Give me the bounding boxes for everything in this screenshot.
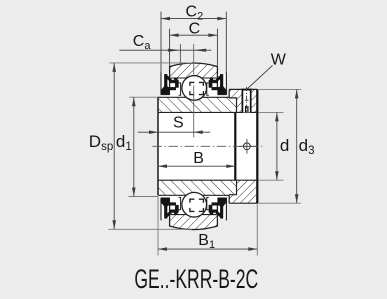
seal bottom-left: foot (161, 198, 170, 207)
dim d1 (133, 97, 135, 196)
dim C (170, 34, 218, 36)
dim d1 extension lines (129, 96, 158, 98)
seal bottom-left: run (170, 210, 179, 213)
seal top-right: run (209, 80, 218, 83)
outer ring bottom section (170, 215, 218, 230)
seal bottom-right: foot run (212, 203, 221, 206)
seal top-right: foot run (212, 87, 221, 90)
set screw channel (242, 89, 250, 112)
dim Dsp (113, 63, 115, 229)
shaft center line (152, 145, 262, 147)
seal bottom-left: outer bar (164, 205, 167, 218)
seal top-left: lip bracket (179, 83, 181, 95)
seal top-right: lip bracket (207, 83, 209, 95)
dim Ca tick (179, 44, 181, 66)
seal bottom-right: lip bracket (207, 197, 209, 209)
collar bottom face (229, 202, 257, 204)
seal top-right: nub (210, 78, 213, 80)
seal top-left: nub (174, 78, 177, 80)
set screw tick (245, 99, 249, 101)
seal zone white top (161, 74, 226, 98)
dim C2 extension lines (160, 12, 162, 73)
seal top-left: outer bar (164, 74, 167, 87)
collar bottom part (229, 180, 257, 203)
ball center plane line (193, 44, 195, 75)
dim C2 (161, 18, 226, 20)
seal top-right: diagonal lip (216, 76, 222, 82)
bore bottom line (158, 179, 257, 181)
collar top face (229, 88, 257, 90)
dim d3 (296, 89, 298, 203)
bore top line (158, 111, 257, 113)
seal top-right: flinger thin line (225, 72, 227, 94)
dim d3 extension lines (258, 88, 301, 90)
seal bottom-right: flinger thin line (225, 198, 227, 220)
seal bottom-left: flinger thin line (160, 198, 162, 220)
seal top-left: foot run (167, 87, 176, 90)
dim d (276, 112, 278, 180)
seal bottom-left: diagonal lip (166, 211, 172, 217)
dim B1 extension lines (157, 197, 159, 256)
set screw socket (245, 106, 247, 112)
seal bottom-right: foot (218, 198, 227, 207)
seal bottom-left: hook (175, 205, 178, 210)
outer ring top section (170, 63, 218, 78)
svg-text:d: d (280, 136, 289, 155)
svg-text:W: W (271, 51, 287, 68)
bore white (158, 112, 257, 180)
ball top (182, 76, 207, 101)
inner ring bottom band (158, 180, 237, 195)
seal top-left: hook (175, 83, 178, 88)
collar right thick line (256, 89, 258, 203)
seal bottom-right: hook (209, 205, 212, 210)
seal top-right: outer bar (220, 74, 223, 87)
seal top-right: foot (218, 86, 227, 95)
inner ring extension face (234, 112, 236, 180)
dim S (138, 131, 210, 133)
inner ring left face (157, 97, 159, 195)
dim d extension lines (258, 111, 283, 113)
svg-text:S: S (173, 114, 184, 131)
seal top-right: hook (209, 83, 212, 88)
seal zone white bottom (161, 195, 226, 219)
dim Ca (119, 49, 211, 51)
seal bottom-left: foot run (167, 203, 176, 206)
seal bottom-right: nub (210, 213, 213, 215)
ball bottom (182, 192, 207, 217)
seal top-left: diagonal lip (166, 76, 172, 82)
seal bottom-right: outer bar (220, 205, 223, 218)
collar top part (229, 89, 257, 112)
dim Dsp extension lines (109, 62, 192, 64)
cage bottom (190, 199, 204, 211)
svg-text:C: C (189, 20, 201, 37)
dim B1 (158, 248, 257, 250)
inner ring top band (158, 97, 237, 112)
cage top (190, 82, 204, 94)
dim C extension lines (169, 29, 171, 67)
seal bottom-left: nub (174, 213, 177, 215)
seal bottom-left: lip bracket (179, 197, 181, 209)
seal top-left: run (170, 80, 179, 83)
dim B (158, 165, 235, 167)
seal top-left: foot (161, 86, 170, 95)
leader W (247, 65, 272, 88)
lube hole crosshair (239, 145, 258, 147)
seal bottom-right: run (209, 210, 218, 213)
svg-text:B: B (193, 150, 204, 167)
set screw center line (246, 87, 248, 114)
seal top-left: flinger thin line (160, 72, 162, 94)
set screw top (242, 89, 252, 91)
seal bottom-right: diagonal lip (216, 211, 222, 217)
svg-text:GE..-KRR-B-2C: GE..-KRR-B-2C (134, 263, 258, 294)
